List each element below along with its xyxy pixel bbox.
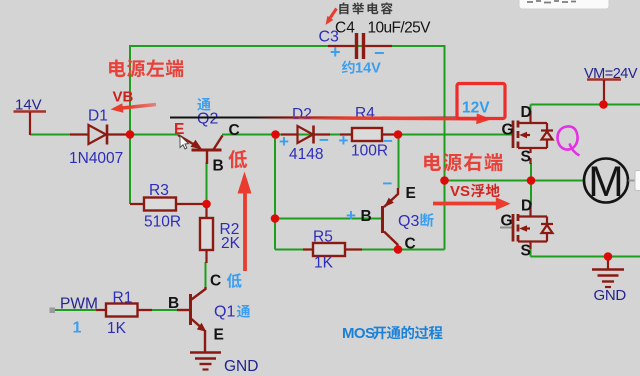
ground symbol left [190, 353, 221, 370]
svg-text:D2: D2 [292, 106, 312, 123]
annotation 断 (off) [420, 213, 433, 227]
svg-text:E: E [214, 327, 224, 344]
red arrow to capacitor [328, 9, 337, 22]
node junction 6 [394, 245, 403, 254]
svg-text:R3: R3 [149, 182, 169, 199]
svg-text:D1: D1 [88, 108, 108, 125]
svg-text:G: G [502, 122, 514, 139]
annotation 通 (on) at Q1 [237, 305, 250, 318]
svg-text:C: C [210, 273, 221, 290]
svg-text:S: S [521, 149, 531, 166]
wire left vertical x=130 VB net [129, 45, 131, 204]
mouse cursor [180, 136, 189, 150]
svg-text:B: B [168, 295, 179, 312]
motor M [584, 159, 628, 203]
node junction 9 [599, 100, 608, 109]
wire Q3 emitter up to gate node [398, 135, 400, 189]
transistor Q1 NPN [177, 287, 206, 353]
resistor R4 100R [340, 128, 396, 141]
svg-text:C: C [229, 122, 240, 139]
resistor R3 510R [130, 198, 205, 211]
wire black annotation line y=117.5 [170, 117, 456, 119]
svg-text:14V: 14V [15, 97, 42, 114]
wire Q3 base row y=218.5 [275, 218, 382, 220]
bottom FET body arrow [519, 225, 527, 231]
annotation 电源左端 [109, 59, 125, 77]
wire R1 to Q1 base [150, 309, 177, 311]
svg-text:Q3: Q3 [398, 213, 419, 230]
red up arrow below 低 [243, 190, 247, 271]
svg-text:C: C [405, 236, 416, 253]
svg-text:MOS: MOS [342, 325, 375, 342]
ground symbol right [607, 257, 609, 269]
Q2 emitter arrow (PNP into bar) [191, 140, 203, 150]
terminal PWM input [50, 308, 56, 314]
wire vertical x=275 Q2 base net to Q3 base [274, 135, 276, 250]
svg-text:VS: VS [450, 183, 470, 200]
svg-text:+: + [330, 42, 341, 62]
Q3 emitter arrow (PNP into bar) [384, 198, 394, 208]
node junction 10 [604, 252, 613, 261]
diode D2 4148 [281, 126, 330, 144]
svg-text:D: D [521, 104, 532, 121]
annotation 电源右端 [424, 153, 441, 171]
red arrow VS to bottom FET [433, 202, 496, 206]
svg-text:510R: 510R [144, 214, 181, 231]
svg-text:R5: R5 [313, 229, 333, 246]
svg-text:+: + [279, 132, 289, 151]
node junction 4 [202, 200, 211, 209]
annotation 低 (big red) [228, 150, 247, 168]
svg-text:B: B [361, 208, 372, 225]
svg-text:S: S [521, 243, 531, 260]
svg-text:+: + [339, 131, 349, 150]
wire Q2 collector to D2/R4 row [222, 134, 513, 136]
annotation 通 (on) above Q2 [197, 98, 210, 111]
node junction 3 [394, 130, 403, 139]
top FET body arrow [519, 132, 527, 138]
node junction 5 [271, 214, 280, 223]
wire top bootstrap rail y=46 [130, 45, 445, 47]
svg-text:14V: 14V [355, 61, 381, 77]
svg-text:E: E [174, 121, 184, 138]
MOSFET bottom (low side) [513, 205, 553, 249]
red arrow VB pointing left [122, 105, 156, 109]
capacitor C4 10uF/25V [328, 33, 392, 59]
svg-text:Q1: Q1 [214, 304, 235, 321]
svg-text:E: E [406, 185, 416, 202]
svg-text:B: B [213, 158, 224, 175]
wire Q1 collector to R2 [205, 262, 207, 289]
svg-text:VB: VB [113, 89, 134, 106]
wire VS row to motor y=180.5 [445, 180, 584, 182]
annotation 约14V [342, 61, 355, 74]
MOSFET top (high side) [513, 111, 553, 164]
white box at right edge [635, 171, 640, 191]
wire bottom rail y=256.5 [531, 249, 640, 257]
Q1 emitter arrow (NPN out) [197, 323, 207, 332]
transistor Q3 PNP [383, 188, 399, 250]
wire Q2 base down to R3/R2 junction [206, 162, 208, 204]
wire 14V drop [29, 112, 31, 135]
svg-text:12V: 12V [462, 100, 490, 117]
node junction 7 [440, 176, 449, 185]
wire black annotation line y=117.5 (over Q2 label) [196, 117, 222, 119]
wire VM rail y=104.5 [531, 105, 640, 113]
svg-text:−: − [319, 131, 329, 150]
wire PWM input row y=310 [54, 309, 106, 311]
svg-text:1K: 1K [314, 255, 334, 272]
long red arrow to 12V gate [250, 118, 477, 119]
node junction 8 [527, 176, 536, 185]
svg-text:1K: 1K [107, 320, 127, 337]
node junction 2 [271, 130, 280, 139]
diode D1 1N4007 [70, 125, 126, 145]
red box 12V [457, 84, 505, 119]
resistor R2 2K [200, 208, 213, 263]
power terminal 14V bar [14, 110, 47, 113]
svg-text:Q2: Q2 [197, 111, 218, 128]
resistor R5 1K [303, 243, 362, 256]
motor right pin stub [629, 180, 636, 182]
svg-text:+: + [346, 206, 356, 225]
svg-text:GND: GND [224, 358, 258, 375]
svg-text:D: D [521, 198, 532, 215]
svg-text:R1: R1 [113, 290, 133, 307]
wire D1 cathode to Q2 emitter [124, 134, 178, 136]
wire R5 bottom row y=249.5 [275, 249, 445, 251]
svg-text:G: G [501, 213, 513, 230]
svg-text:PWM: PWM [60, 296, 98, 313]
wire vertical x=444.5 VS net (cap right to bottom row) [444, 45, 446, 250]
wire 14V input to D1 [30, 134, 72, 136]
svg-text:M: M [588, 159, 623, 206]
node junction 1 [126, 130, 135, 139]
wire vertical x=531 top-FET source / bottom-FET drain [530, 163, 532, 205]
svg-text:VM=24V: VM=24V [584, 66, 638, 82]
svg-text:−: − [383, 132, 393, 151]
svg-text:1N4007: 1N4007 [69, 150, 123, 167]
annotation 低 (low) at Q1 collector [227, 273, 242, 288]
svg-text:2K: 2K [221, 235, 241, 252]
transistor Q2 PNP [178, 135, 223, 164]
wire floating gate stub of bottom FET [500, 227, 512, 229]
svg-text:GND: GND [594, 287, 627, 304]
white tooltip box top right [519, 0, 609, 9]
power terminal VM=24V [587, 78, 621, 81]
svg-text:−: − [383, 174, 393, 193]
resistor R1 1K [96, 304, 152, 317]
annotation 自举电容 [339, 2, 348, 14]
svg-text:10uF/25V: 10uF/25V [368, 20, 432, 37]
svg-text:C4: C4 [335, 20, 355, 37]
svg-text:1: 1 [73, 320, 82, 337]
magenta Q mark [558, 126, 580, 155]
